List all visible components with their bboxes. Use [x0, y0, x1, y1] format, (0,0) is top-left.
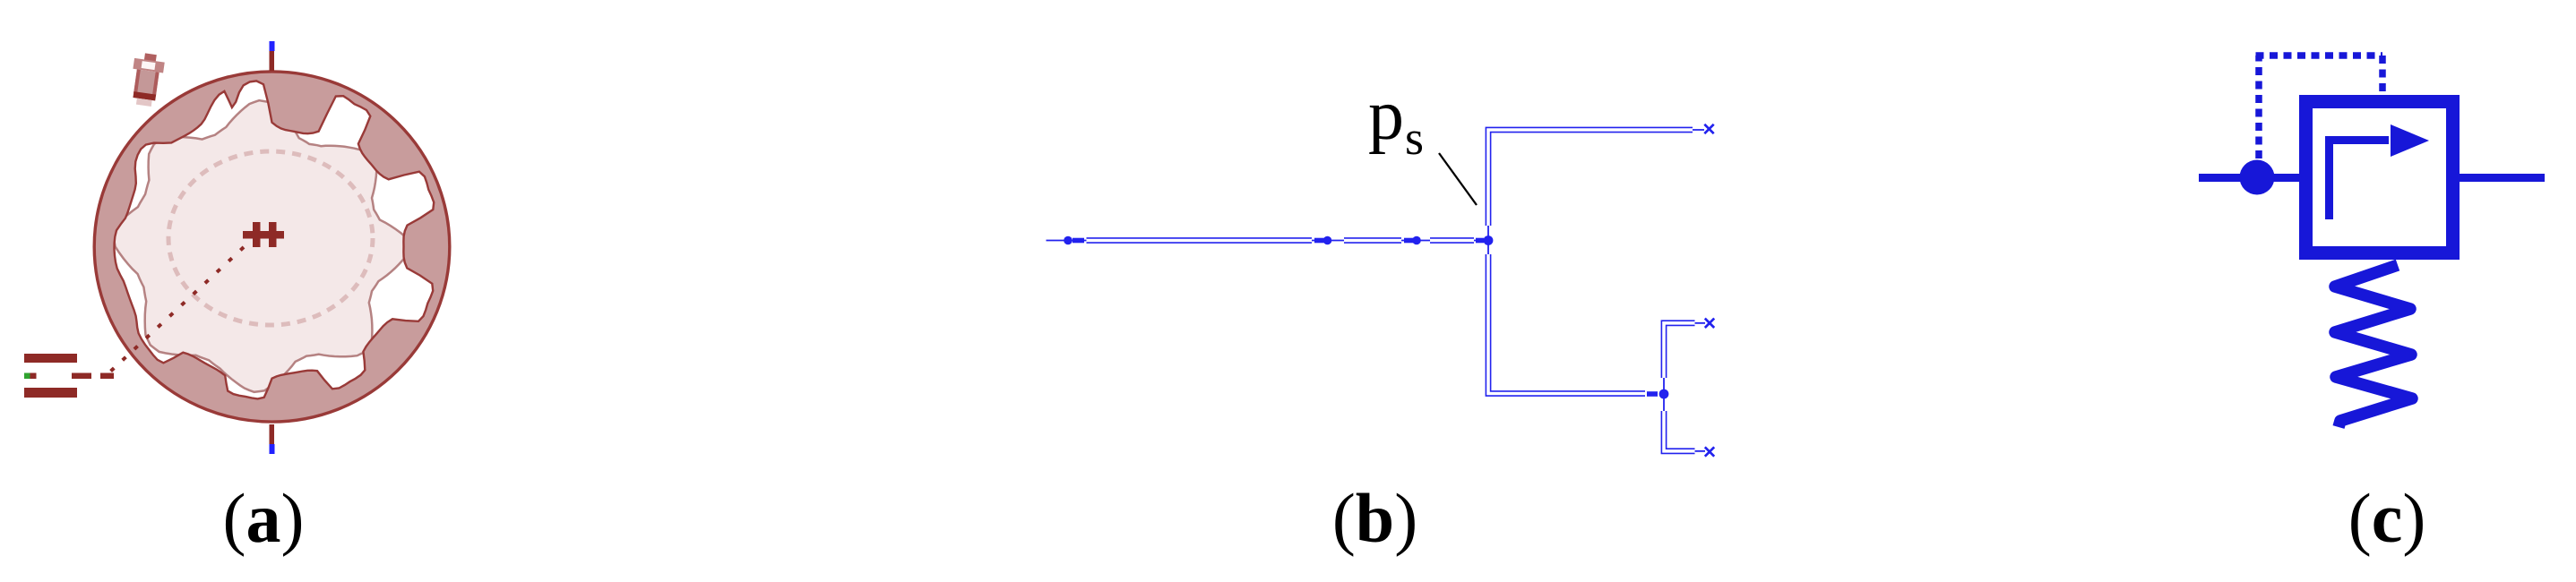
connector bar 2	[1314, 238, 1324, 244]
internal flow arrow	[2330, 141, 2390, 220]
pipe node2 up branch	[1664, 323, 1695, 378]
terminator x bottom	[1705, 447, 1714, 456]
right port line	[2460, 174, 2545, 182]
node dot 1	[1064, 236, 1073, 245]
pipe down-branch with elbow	[1488, 254, 1645, 394]
terminator x top	[1704, 124, 1713, 133]
svg-text:p: p	[1368, 76, 1404, 155]
node dot 2	[1323, 236, 1332, 245]
junction vertical centerline	[1487, 226, 1489, 254]
rotation axis dashed line	[109, 247, 244, 372]
pipe segment 1	[1087, 237, 1313, 244]
top axis line	[270, 51, 275, 71]
main horizontal centerline	[1047, 240, 1489, 242]
junction dot on left line	[2240, 160, 2275, 195]
shaft center dashed line with green end	[24, 373, 114, 380]
outer rotor inner profile line	[115, 81, 435, 398]
pipe segment 3	[1430, 237, 1474, 244]
node dot 5	[1659, 389, 1669, 399]
node2 vertical centerline	[1663, 378, 1665, 411]
left port line	[2199, 174, 2299, 182]
junction node dot	[1484, 235, 1494, 245]
valve box	[2306, 102, 2453, 253]
pipe node2 down branch	[1664, 411, 1695, 451]
pilot dashed line	[2256, 56, 2383, 158]
shaft symbol lower bar	[24, 388, 77, 398]
terminator x middle	[1705, 319, 1714, 328]
shaft symbol upper bar	[24, 354, 77, 363]
svg-text:(a): (a)	[223, 479, 305, 557]
pitch circle (dashed)	[168, 151, 373, 325]
arrowhead	[2391, 124, 2429, 157]
housing outer circle line	[94, 72, 450, 422]
pipe segment 2	[1344, 237, 1401, 244]
bottom axis tick (blue)	[270, 444, 275, 454]
x-mark connector lines	[1693, 130, 1705, 451]
connector bar 4	[1476, 238, 1484, 244]
outer rotor (annulus ring with 9 lobes)	[94, 72, 450, 422]
connector bar 1	[1073, 238, 1084, 244]
connector bar 5	[1647, 391, 1658, 397]
bottom axis line	[270, 424, 275, 444]
svg-text:(c): (c)	[2348, 479, 2426, 557]
pin icon top-left	[128, 52, 166, 107]
leader line	[1439, 153, 1477, 205]
pipe up-branch with elbow	[1488, 130, 1693, 226]
svg-text:(b): (b)	[1332, 479, 1417, 557]
connector bar 3	[1404, 238, 1413, 244]
inner rotor (8-tooth star)	[114, 100, 409, 392]
node dot 3	[1412, 236, 1421, 245]
center mark (double cross)	[243, 222, 284, 247]
top axis tick (blue)	[270, 41, 275, 51]
svg-text:s: s	[1405, 111, 1424, 165]
spring	[2335, 265, 2412, 427]
